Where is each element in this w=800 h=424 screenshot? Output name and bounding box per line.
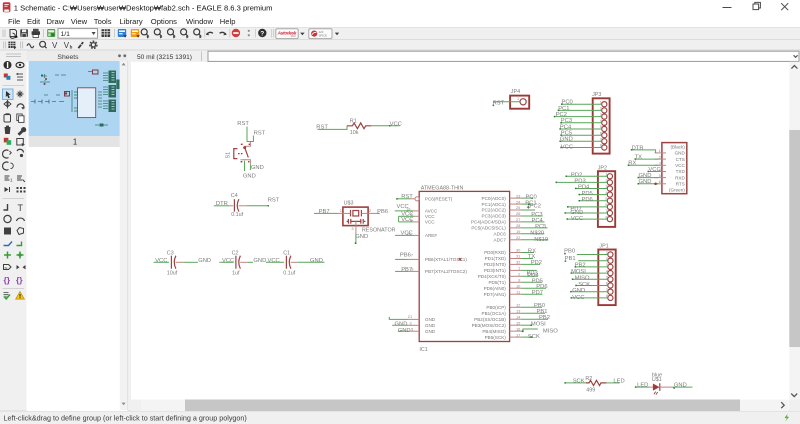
wire PB2 (575, 266, 608, 268)
connector JP1 (564, 244, 616, 305)
svg-text:PB6: PB6 (400, 252, 411, 258)
svg-text:GND: GND (572, 288, 585, 294)
wire MISO (572, 278, 607, 280)
svg-text:PB0(ICP): PB0(ICP) (486, 305, 506, 310)
wire U$1 to GND (672, 386, 693, 388)
svg-text:360: 360 (291, 34, 296, 38)
svg-text:VCC: VCC (572, 295, 584, 301)
wire DTR (631, 150, 655, 153)
svg-text:13: 13 (516, 309, 521, 314)
svg-text:R1: R1 (350, 118, 357, 124)
svg-text:PD4(XCK/T0): PD4(XCK/T0) (478, 274, 507, 279)
wire PD3 (521, 269, 537, 271)
wire MOSI (571, 272, 608, 274)
wire TX (635, 158, 659, 160)
svg-text:VCC: VCC (425, 220, 435, 225)
wire PD4 (576, 188, 608, 190)
svg-text:1 Schematic - C:₩Users₩user₩De: 1 Schematic - C:₩Users₩user₩Desktop₩fab2… (14, 3, 273, 12)
wire PD7 (568, 206, 608, 208)
svg-text:PB4(MISO): PB4(MISO) (482, 329, 506, 334)
sheet label strip (29, 136, 120, 147)
svg-text:Edit: Edit (27, 17, 41, 26)
IC block (78, 88, 96, 118)
svg-text:C3: C3 (167, 250, 174, 256)
svg-text:PC5(ADC5/SCL): PC5(ADC5/SCL) (471, 226, 506, 231)
svg-text:IC1: IC1 (419, 347, 427, 353)
svg-text:1: 1 (73, 138, 77, 147)
svg-text:28: 28 (516, 223, 521, 228)
svg-text:Left-click&drag to define grou: Left-click&drag to define group (or left… (4, 414, 247, 423)
svg-text:GND: GND (639, 173, 652, 179)
CAM icon (47, 29, 55, 37)
svg-text:b: b (70, 44, 73, 49)
svg-text:T: T (18, 203, 24, 213)
svg-text:VCC: VCC (390, 121, 402, 127)
wire VCC to C1 (266, 261, 284, 263)
wire C4 to RST (247, 205, 269, 207)
svg-text:16: 16 (516, 326, 521, 331)
svg-text:10k: 10k (350, 130, 359, 136)
svg-text:Options: Options (151, 17, 177, 26)
svg-text:GND: GND (253, 258, 266, 264)
tool palette grip (6, 53, 21, 55)
svg-text:27: 27 (516, 217, 521, 222)
IC1 body (419, 191, 509, 341)
wire PB2 (521, 318, 548, 320)
svg-text:GND: GND (674, 383, 687, 389)
svg-text:SCK: SCK (528, 334, 540, 340)
svg-text:JP4: JP4 (511, 89, 520, 95)
svg-text:PD3(INT1): PD3(INT1) (484, 268, 506, 273)
wire R2 to LED (606, 382, 619, 384)
wire VCC (648, 171, 659, 173)
wire PC1 (521, 203, 533, 205)
open icon (10, 30, 18, 39)
svg-text:PC5: PC5 (561, 131, 572, 137)
svg-text:(Green): (Green) (669, 188, 685, 193)
svg-text:0.1uf: 0.1uf (283, 271, 295, 277)
C1 plates (285, 256, 287, 269)
svg-text:GND: GND (425, 329, 436, 334)
eagle premium button (309, 29, 332, 39)
svg-text:PB0: PB0 (564, 248, 575, 254)
wire PC2 (554, 116, 601, 118)
wire VCC (567, 218, 607, 220)
sheets panel body (27, 62, 128, 412)
svg-text:R2: R2 (585, 376, 592, 382)
svg-text:GND: GND (639, 179, 652, 185)
svg-text:RTS: RTS (676, 182, 685, 187)
wire PC0 (521, 197, 533, 199)
svg-text:23: 23 (516, 193, 521, 198)
svg-text:ADC6: ADC6 (494, 232, 507, 237)
svg-text:TX: TX (528, 254, 536, 260)
svg-text:Help: Help (220, 17, 236, 26)
wire PB1 (578, 260, 608, 262)
svg-text:GND: GND (251, 165, 264, 171)
svg-text:PC2: PC2 (530, 204, 541, 210)
zoom icons x5 (141, 29, 201, 36)
svg-text:GND: GND (355, 234, 368, 240)
grid icon (102, 29, 111, 37)
S1 lever (245, 148, 249, 158)
wire VCC to C3 (154, 261, 169, 263)
wire PD3 (556, 181, 607, 183)
svg-text:PB1(OC1A): PB1(OC1A) (482, 311, 507, 316)
S1 tiny pin name marks (241, 144, 243, 145)
svg-text:10: 10 (516, 283, 521, 288)
save icon (20, 29, 28, 37)
wire S1 to GND (left) (244, 161, 246, 171)
svg-text:PC2: PC2 (556, 112, 567, 118)
svg-text:22: 22 (516, 235, 521, 240)
svg-text:VCC: VCC (675, 163, 685, 168)
wire DTR to C4 (214, 205, 229, 207)
svg-text:N$19: N$19 (534, 237, 548, 243)
svg-text:VCC: VCC (268, 258, 280, 264)
connector JP3 (554, 92, 610, 154)
wire PC3 (521, 215, 543, 217)
wire TX (521, 258, 533, 260)
wire PD7 (521, 293, 543, 295)
C3 plates (170, 256, 172, 269)
svg-text:17: 17 (516, 332, 521, 337)
U$1 cathode marks (654, 392, 658, 395)
wire VCC to VCC pin 6 (399, 221, 414, 223)
IC1 right pin names (471, 196, 506, 340)
svg-text:RST: RST (254, 130, 266, 136)
svg-text:C2: C2 (232, 250, 239, 256)
svg-text:Window: Window (186, 17, 214, 26)
wire C2 to GND (248, 261, 253, 263)
wire MOSI (521, 324, 531, 326)
wire SCK (576, 285, 608, 287)
wire GND (565, 212, 607, 214)
wire GND (560, 140, 602, 142)
svg-text:RST: RST (237, 121, 249, 127)
pin 3 (gnd) (355, 221, 357, 233)
svg-text:LED: LED (637, 383, 648, 389)
svg-text:File: File (8, 17, 20, 26)
svg-text:PD2(INT0): PD2(INT0) (484, 262, 506, 267)
resistor R2 (564, 376, 624, 393)
svg-text:1uf: 1uf (232, 271, 240, 277)
R1 body (347, 123, 371, 129)
svg-text:U$1: U$1 (652, 377, 662, 383)
svg-text:PC2(ADC2): PC2(ADC2) (482, 208, 507, 213)
svg-text:12: 12 (516, 303, 521, 308)
svg-text:PB7: PB7 (319, 209, 330, 215)
wire PD6 (579, 200, 607, 202)
svg-text:GND: GND (310, 258, 323, 264)
wire RST to R1 (318, 126, 348, 130)
svg-text:GND: GND (198, 258, 211, 264)
svg-text:VCC: VCC (155, 258, 167, 264)
svg-text:TX: TX (635, 155, 643, 161)
svg-text:MISO: MISO (543, 328, 558, 334)
connector X1 FTDI (628, 143, 687, 194)
wire VCC (571, 297, 608, 299)
svg-text:PC3(ADC3): PC3(ADC3) (482, 214, 507, 219)
svg-text:RST: RST (493, 100, 505, 106)
svg-text:PD3: PD3 (574, 179, 585, 185)
window buttons (723, 2, 789, 10)
wire C1 to GND (298, 261, 325, 263)
wire PD4 (521, 275, 538, 277)
svg-text:VCC: VCC (222, 258, 234, 264)
undo redo (207, 32, 213, 34)
svg-text:JP3: JP3 (592, 92, 601, 98)
LED U$1 (635, 373, 693, 395)
status lightning icon (785, 414, 789, 422)
wire S1 to GND (right) (249, 164, 251, 170)
svg-text:GND: GND (425, 317, 436, 322)
wire GND pin5 (398, 330, 409, 332)
svg-text:PC1(ADC1): PC1(ADC1) (482, 202, 507, 207)
svg-text:PD5(T1): PD5(T1) (488, 280, 506, 285)
wire PB0 (521, 306, 542, 308)
S1 top pin (245, 142, 251, 146)
connector JP4 (493, 89, 530, 109)
svg-text:SCK: SCK (578, 282, 590, 288)
svg-text:{}: {} (4, 275, 11, 285)
wire LED to U$1 (635, 386, 649, 388)
S1 dashed actuator link (238, 153, 244, 155)
wire PB6 (395, 258, 408, 260)
wire PD6 (521, 287, 546, 289)
wire SCK (521, 336, 532, 338)
svg-text:Tools: Tools (94, 17, 112, 26)
svg-text:PD7(AIN1): PD7(AIN1) (484, 292, 507, 297)
svg-text:26: 26 (516, 211, 521, 216)
wire VCC to C2 (219, 261, 233, 263)
svg-text:(Black): (Black) (671, 145, 686, 150)
internal load caps (347, 220, 366, 222)
wire RST to PC6 (397, 198, 411, 200)
svg-text:PB2(SS/OC1B): PB2(SS/OC1B) (474, 317, 506, 322)
wire PC4 (560, 128, 602, 130)
svg-text:N$20: N$20 (530, 230, 544, 236)
wire U$3 to PB6 (376, 212, 380, 214)
svg-text:PD2: PD2 (531, 260, 542, 266)
svg-text:1/1: 1/1 (61, 31, 71, 38)
print icon (32, 29, 40, 38)
svg-text:MOSI: MOSI (531, 322, 546, 328)
svg-text:VCC: VCC (425, 214, 435, 219)
svg-text:ADC7: ADC7 (494, 238, 507, 243)
wire VCC join (398, 216, 400, 222)
svg-text:LED: LED (613, 379, 624, 385)
pin 2 (368, 212, 376, 214)
wire PD2 (566, 175, 607, 177)
svg-text:31: 31 (516, 254, 521, 259)
svg-text:PD7: PD7 (532, 290, 543, 296)
svg-text:PD6: PD6 (582, 197, 593, 203)
junction S1 top contact (243, 146, 246, 149)
svg-text:PC3: PC3 (561, 118, 572, 124)
svg-text:GND: GND (560, 137, 573, 143)
wire R1 to VCC (371, 125, 400, 127)
svg-text:32: 32 (516, 260, 521, 265)
wire VCC to AVCC (395, 210, 414, 212)
wire RX (628, 164, 658, 166)
capacitor C3 (154, 250, 211, 276)
BRD icon (131, 29, 140, 38)
svg-text:21: 21 (408, 314, 413, 319)
U$1 diode (653, 384, 660, 391)
wire SCK to R2 (565, 382, 586, 384)
svg-text:S1: S1 (226, 152, 232, 159)
wire PB0 (577, 254, 608, 256)
wire PD2 (521, 263, 540, 265)
toolbar row 2 (4, 41, 97, 50)
junction (654, 183, 657, 186)
S1 button bracket (234, 149, 238, 159)
svg-text:ATMEGA88-THIN: ATMEGA88-THIN (421, 186, 464, 192)
C4 plates (233, 199, 235, 211)
svg-text:PD1(TXD): PD1(TXD) (485, 256, 507, 261)
svg-text:MOSI: MOSI (571, 269, 586, 275)
wire RX (521, 252, 534, 254)
svg-text:V: V (52, 41, 58, 50)
svg-text:U$3: U$3 (344, 200, 354, 206)
svg-text:24: 24 (516, 199, 521, 204)
svg-text:14: 14 (516, 314, 521, 319)
svg-text:RESONATOR: RESONATOR (362, 228, 396, 234)
sheets panel scrollbar (120, 61, 127, 410)
SCH icon (118, 29, 127, 38)
S1 bottom contact (241, 160, 251, 165)
wire PD5 (579, 194, 607, 196)
svg-text:15: 15 (516, 320, 521, 325)
wire VCC to VCC pin 4 (399, 215, 414, 217)
svg-text:Sheets: Sheets (57, 54, 79, 61)
svg-text:PC5: PC5 (535, 224, 546, 230)
svg-text:PD4: PD4 (578, 185, 590, 191)
svg-text:C1: C1 (283, 250, 290, 256)
thumbnail mini schematic (31, 70, 120, 127)
wire PB7 (395, 270, 408, 272)
vertical scrollbar (789, 62, 800, 400)
tool palette icons (3, 61, 27, 299)
svg-text:PD5: PD5 (582, 191, 593, 197)
svg-text:25: 25 (516, 205, 521, 210)
dots (248, 30, 250, 32)
erc mark (459, 258, 462, 261)
sheet combo (58, 29, 98, 39)
svg-text:PB6: PB6 (377, 209, 388, 215)
svg-text:Library: Library (120, 17, 143, 26)
svg-text:RST: RST (268, 197, 280, 203)
svg-text:DTR: DTR (632, 145, 644, 151)
wire VCC to AREF (395, 234, 414, 236)
wire N$20 (521, 233, 544, 235)
svg-text:C4: C4 (231, 193, 238, 199)
R2 body (586, 380, 606, 385)
wire PD5 (521, 281, 542, 283)
wire PC0 (562, 103, 602, 105)
svg-text:CTS: CTS (676, 157, 685, 162)
sheet thumbnail background (29, 61, 120, 136)
svg-text:PC4(ADC4/SDA): PC4(ADC4/SDA) (471, 220, 506, 225)
svg-text:0.1uf: 0.1uf (231, 212, 243, 218)
capacitor C1 (266, 250, 325, 276)
C2 plates (235, 256, 237, 269)
svg-text:30: 30 (516, 248, 521, 253)
svg-text:PB3(MOSI/OC2): PB3(MOSI/OC2) (472, 323, 507, 328)
svg-text:?: ? (260, 31, 264, 38)
svg-text:VCC: VCC (561, 144, 573, 150)
wire PC1 (558, 109, 602, 111)
wire GND pin21 (389, 317, 408, 320)
IC1 right pin stubs (510, 198, 521, 337)
svg-text:PC1: PC1 (558, 106, 569, 112)
svg-text:GND: GND (675, 151, 686, 156)
svg-text:TXD: TXD (676, 169, 686, 174)
svg-text:MISO: MISO (575, 275, 590, 281)
svg-text:N: N (5, 265, 8, 270)
X1 pin stubs (655, 153, 666, 184)
svg-text:AVCC: AVCC (425, 209, 438, 214)
wire PC3 (561, 122, 602, 124)
svg-text:PC4: PC4 (560, 124, 572, 130)
resonator U$3 (314, 200, 396, 244)
wire PC5 (521, 227, 548, 229)
connector JP2 (556, 165, 616, 227)
IC1 right pin numbers (516, 193, 521, 337)
wire GND (638, 177, 659, 179)
svg-text:GND: GND (425, 323, 436, 328)
wire GND2 (638, 183, 659, 185)
svg-text:PC0: PC0 (562, 99, 573, 105)
svg-text:Draw: Draw (47, 17, 65, 26)
wire N$19 (521, 239, 548, 241)
svg-text:AREF: AREF (425, 233, 437, 238)
svg-text:RXD: RXD (675, 175, 685, 180)
title bar icon (3, 2, 11, 12)
wire GND (571, 291, 608, 293)
wire RST label2 to S1 (247, 136, 253, 142)
svg-text:PB5(SCK): PB5(SCK) (485, 335, 507, 340)
toolbar row 1 (3, 29, 339, 39)
svg-text:GND: GND (398, 328, 411, 334)
svg-text:{}: {} (16, 275, 23, 285)
pin PC6(RESET) bubble (411, 198, 415, 200)
wire PB1 (521, 312, 545, 314)
capacitor C4 (214, 193, 280, 218)
svg-text:PD6(AIN0): PD6(AIN0) (484, 286, 507, 291)
svg-text:GND: GND (243, 173, 256, 179)
svg-text:SCK: SCK (573, 379, 585, 385)
svg-text:PB2: PB2 (539, 315, 550, 321)
svg-text:PD0(RXD): PD0(RXD) (484, 250, 506, 255)
wire PB7 to U$3 (314, 212, 338, 214)
wire MISO (521, 329, 538, 331)
horizontal scrollbar (131, 400, 788, 412)
svg-text:RX: RX (628, 161, 636, 167)
capacitor C2 (219, 250, 266, 276)
resistor R1 (316, 118, 402, 136)
wire U$3 to GND (355, 233, 357, 243)
wire PC2 (521, 209, 535, 211)
svg-text:PD2: PD2 (571, 173, 582, 179)
svg-text:499: 499 (586, 388, 595, 394)
svg-text:PD6: PD6 (536, 284, 547, 290)
wire PC4 (521, 221, 545, 223)
svg-text:PB7(XTAL2/TOSC2): PB7(XTAL2/TOSC2) (425, 269, 467, 274)
svg-text:PC6(RESET): PC6(RESET) (425, 197, 453, 202)
svg-text:50 mil (3215 1391): 50 mil (3215 1391) (137, 54, 192, 61)
